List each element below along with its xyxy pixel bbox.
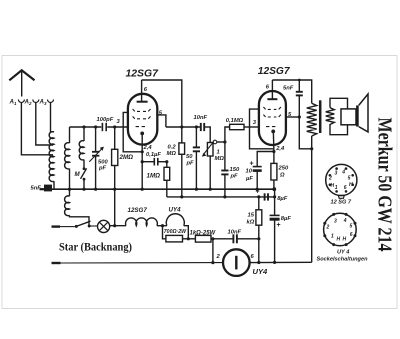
heater UY4 xyxy=(166,214,184,226)
svg-text:+: + xyxy=(256,189,260,196)
svg-text:H: H xyxy=(337,237,341,243)
junction heater mid xyxy=(161,224,164,227)
junction L2/L4 on bus xyxy=(68,188,71,191)
svg-text:4: 4 xyxy=(343,218,347,224)
resistor 2M&#937; xyxy=(112,127,133,189)
junction 0,1uF tap xyxy=(141,160,144,163)
wire L2 bottom to bus xyxy=(69,169,71,190)
loudspeaker xyxy=(341,94,368,132)
junction pot bus xyxy=(209,188,212,191)
junction 8uF bottom xyxy=(273,261,276,264)
variable capacitor 500pF xyxy=(89,127,108,189)
svg-text:100pF: 100pF xyxy=(97,117,114,123)
svg-text:1MΩ: 1MΩ xyxy=(147,173,161,180)
junction node B xyxy=(187,237,190,240)
svg-text:8µF: 8µF xyxy=(281,216,292,222)
wire L1 bottom to bus xyxy=(53,181,55,189)
wire secondary top xyxy=(330,98,348,109)
wire screen bus tube2 xyxy=(272,80,311,103)
resistor 1M&#937; (AVC) xyxy=(147,162,170,197)
capacitor 100pF xyxy=(97,117,114,131)
svg-text:12SG7: 12SG7 xyxy=(258,66,291,77)
svg-text:µF: µF xyxy=(245,176,253,182)
wire L4 to switch xyxy=(70,215,90,225)
dial lamp xyxy=(98,220,110,232)
junction 500pF grid xyxy=(94,125,97,128)
junction 2M bus xyxy=(113,188,116,191)
svg-text:1: 1 xyxy=(217,150,220,156)
wire heater to node B xyxy=(184,226,189,239)
wire A3 to coil top xyxy=(51,103,55,132)
svg-text:MΩ: MΩ xyxy=(167,151,177,157)
svg-text:1: 1 xyxy=(335,185,338,191)
resistor 15k&#937; xyxy=(247,195,262,262)
wire UY4 cathode xyxy=(250,261,312,263)
svg-text:5nF: 5nF xyxy=(283,86,294,92)
tube U2 pin 5 lead xyxy=(286,116,299,118)
socket diagram 12SG7 xyxy=(326,164,357,205)
svg-text:Sockelschaltungen: Sockelschaltungen xyxy=(317,257,369,263)
wire 0,1M to tube2 grid xyxy=(244,126,260,128)
transformer secondary xyxy=(326,108,335,125)
tube U1 cathode xyxy=(140,132,144,136)
svg-text:700Ω·2W: 700Ω·2W xyxy=(164,229,187,235)
terminal A2 xyxy=(24,99,39,107)
tube U1 grid g1 xyxy=(136,126,145,128)
resistor 0,1M&#937; xyxy=(230,124,244,129)
svg-text:1kΩ·25W: 1kΩ·25W xyxy=(190,231,217,237)
svg-text:250: 250 xyxy=(278,166,289,172)
tube U2 12SG7 envelope xyxy=(259,91,286,145)
junction node C xyxy=(211,237,214,240)
svg-text:3: 3 xyxy=(334,219,337,225)
terminal A1 xyxy=(9,99,25,107)
tube U1 anode xyxy=(137,94,148,102)
junction 1M top xyxy=(165,160,168,163)
svg-text:1: 1 xyxy=(331,234,334,240)
junction 50pF bus xyxy=(195,188,198,191)
svg-text:2: 2 xyxy=(328,176,332,182)
svg-text:H: H xyxy=(343,237,347,243)
svg-text:0.2: 0.2 xyxy=(168,145,177,151)
tube U1 12SG7 envelope xyxy=(128,94,157,145)
capacitor 10nF (coupling) xyxy=(194,115,208,131)
svg-text:2,4: 2,4 xyxy=(143,145,153,151)
resistor 700&#937;&#183;2W xyxy=(166,235,183,242)
ground bus xyxy=(52,188,274,190)
junction cathode1 bus xyxy=(141,188,144,191)
svg-text:50: 50 xyxy=(186,154,193,160)
svg-text:UY4: UY4 xyxy=(253,267,269,276)
junction 50pF plate wire xyxy=(195,125,198,128)
junction bus end xyxy=(272,187,276,191)
svg-text:12SG7: 12SG7 xyxy=(126,69,160,80)
svg-text:2: 2 xyxy=(326,225,330,231)
wire A1 to coil tap xyxy=(21,103,53,155)
wire L3 top xyxy=(83,127,85,141)
svg-text:2MΩ: 2MΩ xyxy=(119,154,134,161)
wire ground drop xyxy=(274,189,276,215)
tube U1 cathode lead xyxy=(141,135,143,152)
svg-text:150: 150 xyxy=(230,167,240,173)
svg-text:15: 15 xyxy=(248,213,255,219)
tube U2 anode xyxy=(267,91,277,99)
svg-text:0,1µF: 0,1µF xyxy=(146,152,161,158)
svg-text:0,1MΩ: 0,1MΩ xyxy=(226,118,244,124)
capacitor 8&#181;F (input) xyxy=(256,189,288,203)
tube U2 cathode xyxy=(271,130,275,134)
svg-text:12SG7: 12SG7 xyxy=(128,207,148,214)
resistor 250&#937; xyxy=(271,152,289,190)
wire lamp to heaters xyxy=(110,225,126,227)
svg-text:M: M xyxy=(75,171,81,178)
svg-text:H: H xyxy=(349,182,353,188)
svg-text:5: 5 xyxy=(348,176,351,182)
svg-text:3: 3 xyxy=(335,171,338,177)
junction 10uF bus xyxy=(256,188,259,191)
B+ rail xyxy=(167,196,275,198)
resistor 1k&#937;&#183;25W xyxy=(195,235,211,242)
wire cathode1 to bus xyxy=(141,152,143,189)
antenna coil L1 xyxy=(49,132,54,182)
junction wiper node xyxy=(223,140,226,143)
wire screen bus tube1 xyxy=(142,80,182,143)
tube U2 cathode lead xyxy=(272,133,275,152)
svg-text:4: 4 xyxy=(341,170,345,176)
mains wire lower xyxy=(52,261,224,264)
svg-text:12 SG 7: 12 SG 7 xyxy=(331,200,352,206)
wire g2 lead tube2 xyxy=(250,109,274,149)
tube U1 pin 5 lead xyxy=(157,115,166,127)
tube U1 grid g2 xyxy=(133,116,151,118)
junction 0.2M plate wire xyxy=(180,125,183,128)
wire primary bottom xyxy=(311,136,313,149)
junction heater gnd xyxy=(113,224,116,227)
junction cathode2 xyxy=(272,150,275,153)
junction 15k bottom xyxy=(257,261,260,264)
svg-text:10nF: 10nF xyxy=(228,230,242,236)
junction node D xyxy=(257,237,260,240)
grid wire tube1 xyxy=(70,126,102,128)
junction 150pF rail xyxy=(223,195,226,198)
antenna xyxy=(9,70,34,96)
svg-text:pF: pF xyxy=(98,166,107,172)
svg-text:6: 6 xyxy=(344,185,347,191)
junction cathode1 xyxy=(141,150,144,153)
svg-text:Ω: Ω xyxy=(279,173,285,179)
plate wire tube1 xyxy=(166,126,200,128)
switch M xyxy=(75,167,87,189)
tube U2 grid g1 xyxy=(266,126,275,128)
socket diagram UY4 xyxy=(323,213,356,256)
wire bus to heater node xyxy=(114,189,116,226)
heater 12SG7 xyxy=(126,218,158,226)
capacitor 5nF (chassis) xyxy=(31,185,53,192)
svg-text:kΩ: kΩ xyxy=(247,220,255,226)
wire pot wiper xyxy=(217,141,225,143)
capacitor 10&#181;F electrolytic xyxy=(245,152,274,190)
junction 2M grid xyxy=(113,125,116,128)
junction L3 grid wire xyxy=(82,125,85,128)
wire B+ riser xyxy=(311,149,313,262)
svg-text:+: + xyxy=(250,161,254,168)
terminal A3 xyxy=(39,99,54,107)
svg-text:pF: pF xyxy=(230,174,239,180)
svg-text:2,4: 2,4 xyxy=(275,146,285,152)
rectifier UY4 xyxy=(223,249,268,276)
capacitor 5nF (plate) xyxy=(283,80,303,117)
svg-text:Star (Backnang): Star (Backnang) xyxy=(59,240,132,254)
wire wiper up xyxy=(225,127,230,142)
svg-text:10: 10 xyxy=(246,169,253,175)
border frame xyxy=(2,56,397,309)
wire C to mains xyxy=(212,239,214,263)
wire L2 top xyxy=(69,127,71,143)
tube U1 grid g3 xyxy=(133,109,151,111)
junction rail end xyxy=(273,195,276,198)
svg-text:Merkur 50 GW 214: Merkur 50 GW 214 xyxy=(374,118,396,252)
svg-text:MΩ: MΩ xyxy=(215,156,225,162)
capacitor 8&#181;F (output) xyxy=(270,215,292,262)
junction 5nF top xyxy=(298,79,301,82)
wire node A down xyxy=(163,226,166,239)
tube U2 pin 6 lead xyxy=(271,80,273,91)
wire heater link xyxy=(157,225,167,227)
tube U2 grid g3 xyxy=(263,107,281,109)
svg-text:5nF: 5nF xyxy=(31,186,42,192)
svg-text:6: 6 xyxy=(350,232,353,238)
wire bus to L4 xyxy=(69,189,71,196)
wire g2 lead tube1 xyxy=(123,112,141,151)
potentiometer 1M&#937; volume xyxy=(202,127,225,189)
svg-text:UY 4: UY 4 xyxy=(337,250,350,256)
power switch xyxy=(52,221,98,228)
svg-text:8µF: 8µF xyxy=(277,196,288,202)
wire L3 to switch M xyxy=(83,160,85,168)
svg-text:10nF: 10nF xyxy=(194,115,208,121)
resistor 0.2M&#937; xyxy=(167,143,185,197)
wire A2 to coil tap xyxy=(36,103,53,146)
coil L2 xyxy=(65,143,70,169)
svg-text:+: + xyxy=(277,222,281,229)
junction 0.2M rail xyxy=(180,195,183,198)
junction 500pF bus xyxy=(94,188,97,191)
svg-text:5: 5 xyxy=(350,224,353,230)
capacitor 10nF (mains) xyxy=(228,230,259,244)
junction M on bus xyxy=(82,188,85,191)
capacitor 150pF xyxy=(221,142,240,197)
junction primary bottom xyxy=(310,147,313,150)
capacitor 50pF xyxy=(186,127,201,189)
svg-text:pF: pF xyxy=(186,161,195,167)
transformer primary xyxy=(307,103,317,136)
wire secondary bottom xyxy=(330,124,348,135)
coil L4 xyxy=(65,196,70,216)
coil L3 xyxy=(79,141,84,160)
capacitor 0,1uF xyxy=(142,152,167,165)
junction plate2 xyxy=(298,115,301,118)
junction mains C xyxy=(211,261,214,264)
transformer core xyxy=(319,100,322,133)
wire plate2 down xyxy=(299,117,311,149)
tube U1 pin 6 lead xyxy=(141,80,143,94)
tube U2 grid g2 xyxy=(263,115,281,117)
svg-text:UY4: UY4 xyxy=(169,207,182,214)
